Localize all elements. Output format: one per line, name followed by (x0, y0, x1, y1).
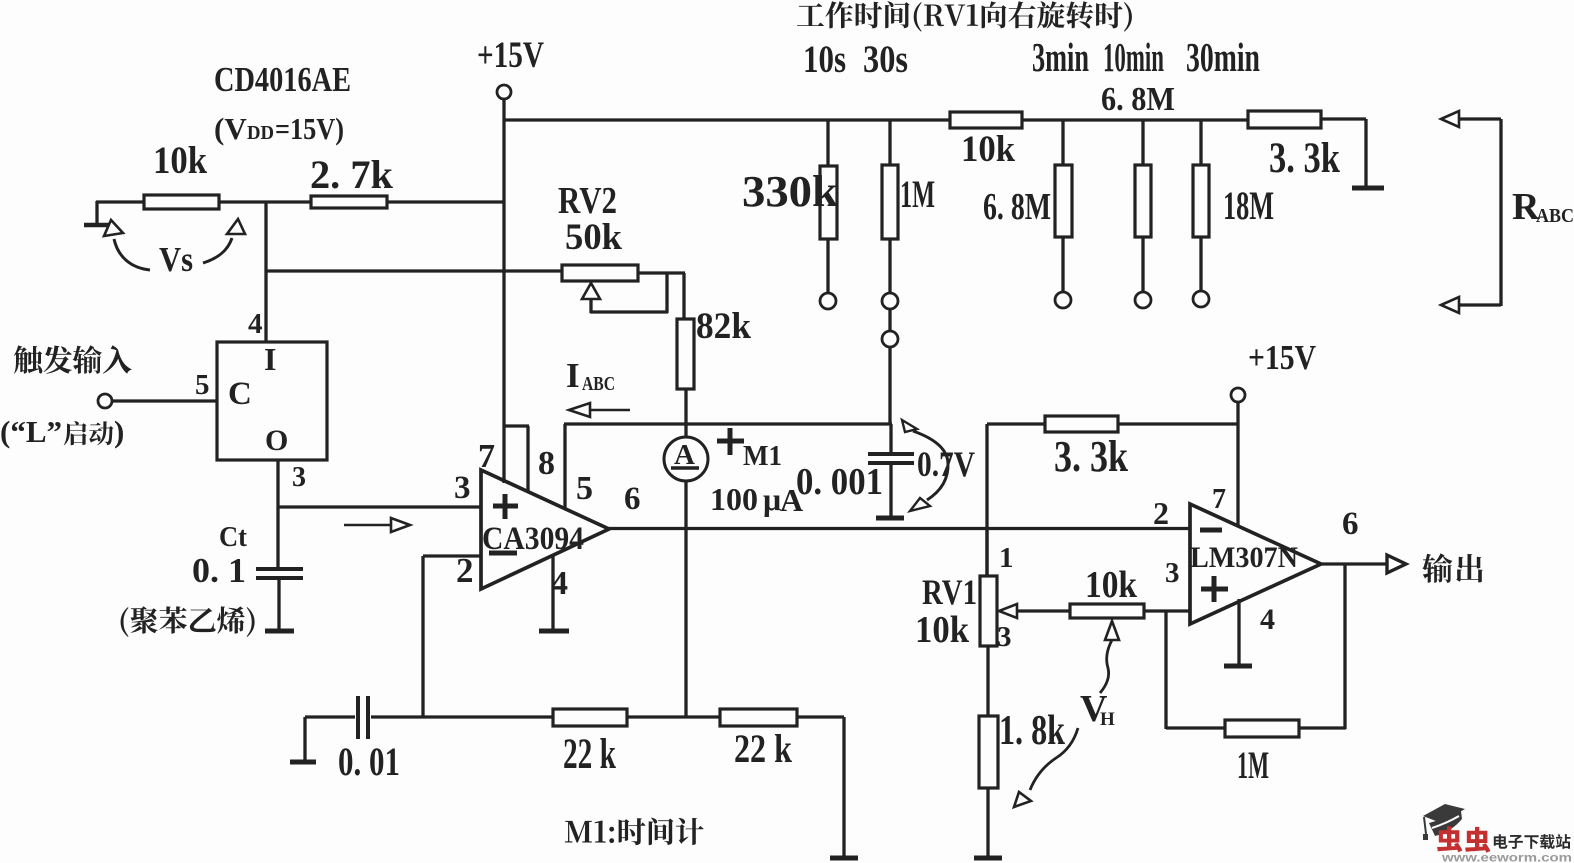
svg-text:10k: 10k (915, 609, 970, 651)
svg-text:6. 8M: 6. 8M (983, 186, 1051, 228)
svg-text:22 k: 22 k (563, 731, 616, 778)
svg-text:5: 5 (576, 470, 593, 507)
svg-text:22 k: 22 k (734, 726, 793, 771)
svg-text:7: 7 (1212, 484, 1226, 515)
svg-text:50k: 50k (565, 217, 622, 258)
svg-text:+15V: +15V (1248, 338, 1316, 377)
svg-text:+15V: +15V (477, 35, 544, 76)
svg-text:www.eeworm.com: www.eeworm.com (1441, 851, 1572, 863)
svg-text:(“L”: (“L” (0, 414, 62, 449)
svg-text:10k: 10k (153, 139, 207, 182)
svg-text:3: 3 (1165, 557, 1180, 589)
svg-text:4: 4 (248, 308, 263, 340)
svg-text:M1: M1 (743, 440, 782, 472)
svg-text:Ct: Ct (219, 521, 247, 553)
svg-text:0. 1: 0. 1 (192, 551, 246, 590)
svg-text:2. 7k: 2. 7k (310, 152, 394, 197)
svg-text:0. 001: 0. 001 (796, 461, 883, 503)
svg-text:3: 3 (997, 621, 1012, 653)
svg-text:CD4016AE: CD4016AE (214, 60, 351, 99)
svg-text:I: I (566, 356, 580, 395)
svg-text:A: A (674, 439, 695, 471)
svg-text:ABC: ABC (1536, 205, 1574, 227)
svg-text:O: O (265, 424, 288, 457)
svg-text:2: 2 (456, 551, 474, 590)
svg-text:3min: 3min (1032, 34, 1089, 80)
svg-text:Vs: Vs (159, 240, 193, 279)
svg-text:10s: 10s (803, 38, 846, 81)
svg-text:3. 3k: 3. 3k (1054, 432, 1128, 481)
svg-text:3: 3 (292, 462, 306, 493)
svg-text:2: 2 (1153, 495, 1169, 531)
svg-text:0. 01: 0. 01 (338, 739, 400, 784)
svg-text:RV2: RV2 (558, 180, 617, 222)
svg-text:=15V): =15V) (275, 111, 344, 146)
svg-text:1M: 1M (1237, 744, 1269, 787)
svg-text:H: H (1100, 709, 1115, 730)
svg-text:I: I (264, 341, 276, 377)
svg-text:18M: 18M (1223, 183, 1274, 228)
svg-text:3. 3k: 3. 3k (1269, 135, 1340, 182)
svg-text:): ) (114, 414, 124, 449)
svg-text:6: 6 (1342, 506, 1359, 542)
svg-text:10k: 10k (961, 129, 1015, 170)
svg-text:(V: (V (214, 111, 247, 146)
svg-text:ABC: ABC (582, 373, 615, 395)
svg-text:82k: 82k (696, 306, 751, 347)
svg-text:1: 1 (999, 542, 1014, 574)
svg-text:6. 8M: 6. 8M (1101, 81, 1175, 118)
svg-text:DD: DD (247, 122, 274, 144)
svg-text:RV1: RV1 (922, 572, 977, 612)
svg-text:μ: μ (763, 481, 781, 517)
svg-text:LM307N: LM307N (1190, 541, 1298, 574)
svg-text:5: 5 (195, 369, 210, 401)
svg-text:10min: 10min (1103, 34, 1164, 80)
svg-text:C: C (228, 376, 252, 412)
svg-text:8: 8 (538, 445, 555, 482)
svg-text:100: 100 (710, 481, 758, 517)
svg-text:4: 4 (551, 565, 568, 602)
svg-text:7: 7 (478, 438, 495, 475)
svg-text:10k: 10k (1085, 564, 1138, 606)
svg-text:3: 3 (454, 470, 471, 506)
svg-text:0.7V: 0.7V (917, 444, 975, 484)
svg-text:1M: 1M (900, 173, 935, 216)
svg-text:1. 8k: 1. 8k (999, 708, 1065, 754)
svg-text:30min: 30min (1186, 34, 1260, 80)
svg-text:4: 4 (1260, 603, 1275, 636)
svg-text:330k: 330k (742, 167, 839, 216)
svg-text:6: 6 (624, 481, 641, 517)
svg-text:30s: 30s (863, 38, 908, 81)
